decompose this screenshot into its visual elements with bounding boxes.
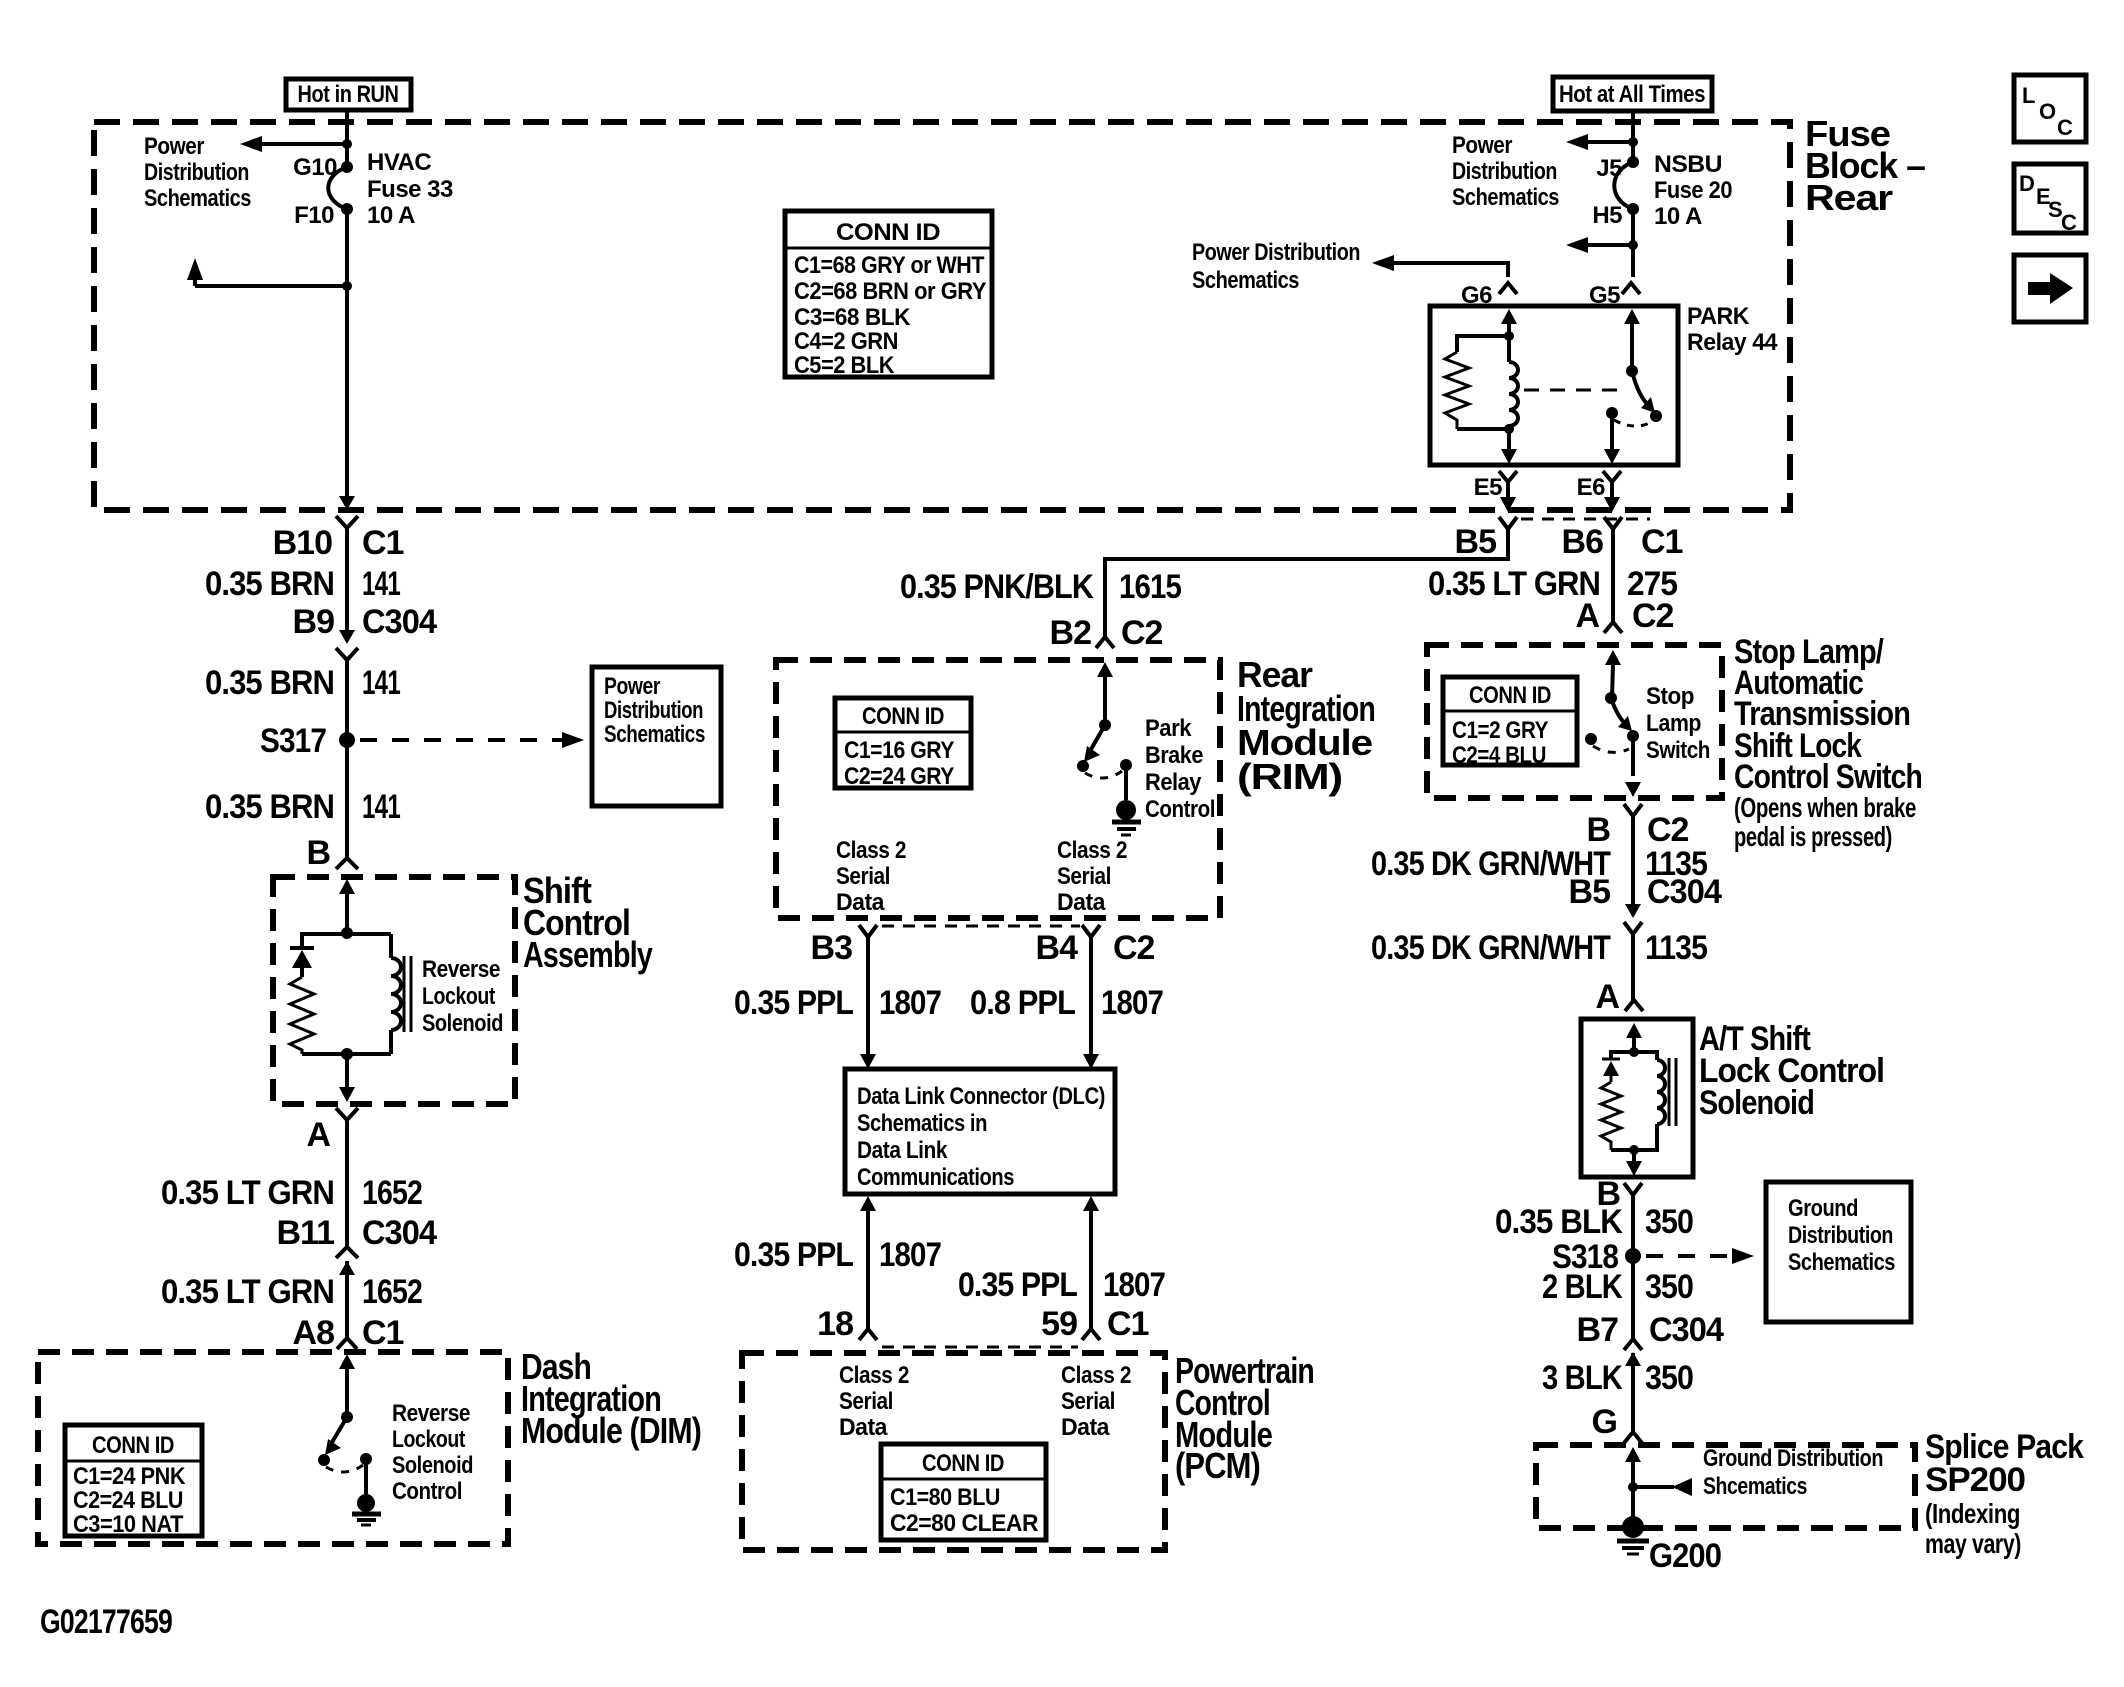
svg-text:Rear: Rear — [1805, 177, 1893, 218]
arrow E6 through fuse block edge — [1604, 497, 1620, 512]
svg-text:A: A — [1575, 597, 1599, 635]
svg-text:Distribution: Distribution — [1452, 158, 1557, 185]
svg-text:O: O — [2039, 99, 2056, 124]
node — [1629, 1047, 1639, 1057]
arrow to power distribution schematics — [1566, 134, 1588, 150]
power source label Hot in RUN — [286, 79, 411, 110]
wire from PCM 18 up to DLC with arrow — [860, 1196, 876, 1211]
svg-text:C3=10 NAT: C3=10 NAT — [73, 1511, 184, 1538]
fuse terminal J5 — [1627, 156, 1639, 168]
wire 1652 LT GRN — [345, 1261, 349, 1339]
svg-text:B2: B2 — [1050, 614, 1092, 652]
relay switch pin arrow (from G5) — [1624, 309, 1640, 324]
node: branch junction — [1628, 137, 1638, 147]
svg-text:0.35 BRN: 0.35 BRN — [205, 565, 334, 603]
label Class 2 Serial Data (RIM right) — [1057, 837, 1127, 916]
connector E6 — [1577, 471, 1621, 501]
svg-text:59: 59 — [1041, 1305, 1077, 1343]
solenoid core bars (A/T) — [1668, 1058, 1671, 1126]
svg-text:C1: C1 — [1107, 1305, 1149, 1343]
svg-text:Lockout: Lockout — [392, 1426, 465, 1453]
note: Power Distribution Schematics (mid) — [1192, 239, 1360, 294]
svg-text:Schematics: Schematics — [1788, 1249, 1895, 1276]
connector table CONN ID (fuse block) — [785, 211, 992, 379]
svg-text:NSBU: NSBU — [1654, 151, 1722, 178]
wire 1652 LT GRN — [345, 1120, 349, 1249]
svg-text:141: 141 — [362, 565, 400, 603]
connector table CONN ID (RIM) — [835, 698, 971, 790]
svg-text:C304: C304 — [362, 1214, 437, 1252]
connector B9 C304 — [293, 603, 438, 660]
svg-text:B: B — [1586, 811, 1610, 849]
connector G5 — [1589, 282, 1640, 309]
svg-text:S317: S317 — [260, 722, 326, 760]
connector B11 C304 (flow up) — [277, 1214, 438, 1275]
svg-text:141: 141 — [362, 788, 400, 826]
svg-text:C4=2 GRN: C4=2 GRN — [794, 328, 898, 355]
svg-text:G02177659: G02177659 — [40, 1603, 172, 1641]
fuse HVAC Fuse 33 10 A — [328, 167, 347, 209]
arrow to ground distribution schematics box — [1732, 1248, 1754, 1264]
svg-text:Reverse: Reverse — [392, 1400, 470, 1427]
arrow out of stop lamp switch box — [1625, 782, 1641, 797]
svg-text:C2=24 GRY: C2=24 GRY — [844, 763, 954, 790]
svg-text:Fuse 20: Fuse 20 — [1654, 177, 1732, 204]
svg-text:C2: C2 — [1121, 614, 1163, 652]
svg-text:1652: 1652 — [362, 1174, 422, 1212]
label Class 2 Serial Data (PCM right) — [1061, 1362, 1131, 1441]
svg-text:B5: B5 — [1455, 523, 1497, 561]
svg-text:0.35 PPL: 0.35 PPL — [734, 1236, 853, 1274]
arrow to power distribution schematics — [1566, 237, 1588, 253]
svg-text:0.35 PNK/BLK: 0.35 PNK/BLK — [900, 568, 1094, 606]
module box: Fuse Block - Rear (dashed) — [94, 122, 1790, 510]
svg-text:C3=68 BLK: C3=68 BLK — [794, 304, 911, 331]
connector table CONN ID (DIM) — [65, 1425, 202, 1538]
dashed connector fragment at PCM top — [882, 1346, 1078, 1349]
connector A below shift control assembly — [306, 1108, 358, 1154]
label Reverse Lockout Solenoid — [422, 956, 503, 1037]
connector table CONN ID (PCM) — [881, 1444, 1046, 1540]
module box: Splice Pack SP200 (dashed) — [1536, 1445, 1915, 1528]
svg-text:Solenoid: Solenoid — [1699, 1084, 1814, 1122]
svg-text:Solenoid: Solenoid — [392, 1452, 473, 1479]
connector B5 C304 — [1569, 873, 1723, 934]
diode (A/T solenoid) — [1602, 1052, 1634, 1082]
ground (DIM internal) — [352, 1494, 381, 1525]
node — [1504, 331, 1514, 341]
connector B5 — [1455, 517, 1517, 561]
svg-text:0.35 LT GRN: 0.35 LT GRN — [1428, 565, 1600, 603]
wire 141 BRN — [345, 660, 349, 859]
wire from relay G6 to reference arrow — [1384, 263, 1508, 277]
svg-text:Class 2: Class 2 — [839, 1362, 909, 1389]
svg-text:C2: C2 — [1647, 811, 1689, 849]
svg-text:0.35 PPL: 0.35 PPL — [958, 1266, 1077, 1304]
svg-text:A: A — [306, 1116, 330, 1154]
svg-text:CONN ID: CONN ID — [862, 703, 944, 730]
module box: Stop Lamp Shift Lock Control Switch (dashed) — [1427, 645, 1722, 798]
wire from PCM 59 up to DLC with arrow — [1083, 1196, 1099, 1211]
svg-text:C1=16 GRY: C1=16 GRY — [844, 737, 954, 764]
wire branch to ground distribution — [1633, 1485, 1674, 1489]
svg-text:0.35 LT GRN: 0.35 LT GRN — [161, 1273, 334, 1311]
svg-text:(Opens when brake: (Opens when brake — [1734, 792, 1916, 823]
node top of solenoid — [341, 927, 353, 939]
svg-text:(Indexing: (Indexing — [1925, 1498, 2020, 1529]
svg-text:C1: C1 — [362, 1314, 404, 1352]
wire to switch pivot — [345, 1368, 349, 1417]
svg-text:B3: B3 — [811, 929, 853, 967]
svg-text:18: 18 — [817, 1305, 853, 1343]
svg-text:(PCM): (PCM) — [1175, 1445, 1260, 1486]
arrow into stop lamp switch box — [1605, 650, 1621, 665]
wire B4 to DLC with arrow — [1089, 937, 1093, 1056]
svg-text:Schematics: Schematics — [1192, 267, 1299, 294]
label Class 2 Serial Data (PCM left) — [839, 1362, 909, 1441]
svg-text:Serial: Serial — [839, 1388, 893, 1415]
connector 59 C1 into PCM — [1041, 1305, 1148, 1343]
svg-text:0.35 BLK: 0.35 BLK — [1495, 1203, 1623, 1241]
svg-text:CONN ID: CONN ID — [92, 1432, 174, 1459]
svg-text:PARK: PARK — [1687, 303, 1750, 330]
fuse terminal F10 — [341, 203, 353, 215]
svg-text:SP200: SP200 — [1925, 1461, 2025, 1499]
node — [1628, 1482, 1638, 1492]
svg-text:Communications: Communications — [857, 1164, 1014, 1191]
svg-text:C304: C304 — [1647, 873, 1722, 911]
module box: Dash Integration Module (dashed) — [38, 1352, 508, 1544]
svg-text:Data: Data — [839, 1414, 888, 1441]
node: branch junction — [342, 139, 352, 149]
wire to splice node — [1631, 1461, 1635, 1518]
svg-text:Schematics: Schematics — [604, 721, 705, 748]
arrow exiting fuse block — [339, 496, 355, 510]
connector B3 below RIM — [811, 925, 877, 967]
svg-text:2 BLK: 2 BLK — [1542, 1268, 1623, 1306]
relay coil pin arrow (from G6) — [1501, 309, 1517, 324]
wire 1135 DK GRN/WHT — [1631, 816, 1635, 904]
wire from Hot in RUN down to fuse — [345, 110, 349, 167]
resistor (solenoid suppression) — [290, 977, 314, 1054]
svg-text:Solenoid: Solenoid — [422, 1010, 503, 1037]
svg-text:Control: Control — [1145, 796, 1215, 823]
power source label Hot at All Times — [1553, 77, 1712, 111]
node: branch junction — [342, 281, 352, 291]
svg-text:Schematics in: Schematics in — [857, 1110, 987, 1137]
svg-text:Data Link: Data Link — [857, 1137, 948, 1164]
note: Ground Distribution Shcematics — [1703, 1445, 1883, 1500]
reference box: Data Link Connector (DLC) — [845, 1069, 1115, 1194]
svg-text:C1: C1 — [1641, 523, 1683, 561]
note: Power Distribution Schematics (top right) — [1452, 132, 1559, 211]
svg-text:Hot in RUN: Hot in RUN — [298, 81, 399, 108]
wire 1135 DK GRN/WHT — [1631, 934, 1635, 1002]
label Stop Lamp Switch — [1646, 683, 1710, 764]
arrow left — [1372, 255, 1394, 271]
wire from Hot at All Times down — [1631, 111, 1635, 162]
svg-text:H5: H5 — [1592, 202, 1622, 229]
legend box arrow — [2014, 255, 2086, 322]
svg-text:CONN ID: CONN ID — [836, 219, 940, 246]
svg-text:Data Link Connector (DLC): Data Link Connector (DLC) — [857, 1083, 1105, 1110]
svg-text:C1=24 PNK: C1=24 PNK — [73, 1463, 186, 1490]
connector E5 — [1474, 471, 1517, 501]
svg-text:Serial: Serial — [1061, 1388, 1115, 1415]
svg-text:E5: E5 — [1474, 474, 1503, 501]
component box: A/T Shift Lock Control Solenoid — [1581, 1019, 1693, 1177]
solenoid coil: Reverse Lockout Solenoid — [347, 934, 401, 1054]
svg-text:B: B — [306, 834, 330, 872]
svg-text:Class 2: Class 2 — [836, 837, 906, 864]
svg-text:Lamp: Lamp — [1646, 710, 1701, 737]
svg-text:Stop: Stop — [1646, 683, 1694, 710]
svg-text:J5: J5 — [1596, 155, 1622, 182]
wire branch left — [1578, 140, 1633, 144]
connector A8 C1 into DIM — [293, 1314, 404, 1352]
svg-text:Distribution: Distribution — [604, 697, 703, 724]
connector B into shift control assembly — [306, 834, 358, 872]
dashed travel arc — [1614, 420, 1652, 426]
wire branch to power distribution — [250, 142, 347, 146]
svg-text:Class 2: Class 2 — [1057, 837, 1127, 864]
wire below fuse — [345, 209, 349, 497]
wire 350 BLK — [1631, 1353, 1635, 1432]
svg-text:C1: C1 — [362, 524, 404, 562]
fuse terminal G10 — [341, 161, 353, 173]
module box: Shift Control Assembly (dashed) — [273, 877, 515, 1104]
arrow into shift control assembly — [339, 879, 355, 894]
svg-text:(RIM): (RIM) — [1237, 756, 1342, 797]
splice S318 — [1625, 1248, 1641, 1264]
legend box LOC — [2014, 75, 2086, 142]
svg-text:3 BLK: 3 BLK — [1542, 1359, 1623, 1397]
svg-text:C2=80 CLEAR: C2=80 CLEAR — [890, 1510, 1038, 1537]
svg-text:B11: B11 — [277, 1214, 335, 1252]
arrow to power distribution schematics — [240, 136, 262, 152]
module title Dash Integration Module (DIM) — [521, 1346, 701, 1451]
svg-text:C1=68 GRY or WHT: C1=68 GRY or WHT — [794, 252, 985, 279]
svg-text:C5=2 BLK: C5=2 BLK — [794, 352, 895, 379]
svg-text:C2=24 BLU: C2=24 BLU — [73, 1487, 183, 1514]
svg-text:350: 350 — [1645, 1268, 1693, 1306]
svg-text:1615: 1615 — [1119, 568, 1181, 606]
svg-text:Distribution: Distribution — [1788, 1222, 1893, 1249]
relay box PARK Relay 44 — [1430, 306, 1678, 465]
relay switch pivot — [1626, 365, 1638, 377]
arrow E5 through fuse block edge — [1500, 497, 1516, 512]
svg-text:E6: E6 — [1577, 474, 1606, 501]
relay switch blade — [1632, 371, 1650, 407]
label Park Brake Relay Control — [1145, 715, 1215, 823]
svg-text:B9: B9 — [293, 603, 335, 641]
svg-text:C304: C304 — [362, 603, 437, 641]
arrow up — [187, 258, 203, 280]
connector G into splice pack — [1592, 1403, 1642, 1443]
svg-text:Relay: Relay — [1145, 769, 1202, 796]
svg-text:Hot at All Times: Hot at All Times — [1559, 81, 1705, 108]
connector A C2 into stop lamp switch — [1575, 597, 1673, 635]
svg-text:Schematics: Schematics — [1452, 184, 1559, 211]
connector table CONN ID (stop lamp switch) — [1443, 677, 1577, 769]
label Reverse Lockout Solenoid Control — [392, 1400, 473, 1505]
dashed reference wire from S317 — [360, 738, 568, 742]
solenoid core bars — [403, 956, 406, 1032]
arrow into RIM — [1097, 662, 1113, 677]
svg-text:Power: Power — [1452, 132, 1512, 159]
reference box: Ground Distribution Schematics — [1766, 1182, 1911, 1322]
svg-text:C2=4 BLU: C2=4 BLU — [1452, 742, 1546, 769]
fuse terminal H5 — [1627, 203, 1639, 215]
svg-text:Data: Data — [1061, 1414, 1110, 1441]
module box: Powertrain Control Module (dashed) — [742, 1353, 1165, 1550]
connector B4 C2 below RIM — [1036, 925, 1155, 967]
node bottom of solenoid — [341, 1048, 353, 1060]
module title Rear Integration Module (RIM) — [1237, 654, 1375, 797]
svg-text:350: 350 — [1645, 1359, 1693, 1397]
svg-text:may vary): may vary) — [1925, 1528, 2021, 1559]
svg-text:Distribution: Distribution — [144, 159, 249, 186]
svg-text:C2: C2 — [1113, 929, 1155, 967]
svg-text:Ground Distribution: Ground Distribution — [1703, 1445, 1883, 1472]
wire B6 down to stop lamp switch — [1611, 529, 1615, 621]
relay contact — [1606, 407, 1618, 419]
connector B7 C304 (flow up) — [1577, 1311, 1725, 1366]
svg-text:Power: Power — [604, 673, 660, 700]
label Class 2 Serial Data (RIM left) — [836, 837, 906, 916]
wire down and arrow out of box — [345, 1054, 349, 1088]
module label A/T Shift Lock Control Solenoid — [1699, 1020, 1884, 1122]
svg-text:Data: Data — [836, 889, 885, 916]
dashed connector fragment below RIM — [882, 925, 1080, 928]
svg-text:Shcematics: Shcematics — [1703, 1473, 1807, 1500]
svg-text:B10: B10 — [273, 524, 332, 562]
solenoid coil (A/T) — [1634, 1052, 1665, 1150]
svg-text:C2=68 BRN or GRY: C2=68 BRN or GRY — [794, 278, 986, 305]
legend box DESC — [2014, 164, 2086, 235]
svg-text:CONN ID: CONN ID — [922, 1450, 1004, 1477]
svg-text:Power Distribution: Power Distribution — [1192, 239, 1360, 266]
connector B6 C1 — [1562, 517, 1683, 561]
connector B below solenoid — [1596, 1175, 1642, 1213]
wire from B5 down-left to RIM B2 — [1105, 529, 1508, 628]
wire to E5 with arrow — [1507, 429, 1511, 451]
svg-text:C304: C304 — [1649, 1311, 1724, 1349]
svg-text:1807: 1807 — [879, 1236, 941, 1274]
svg-text:350: 350 — [1645, 1203, 1693, 1241]
splice S317 — [339, 732, 355, 748]
module title Stop Lamp / A/T Shift Lock Control Switch — [1734, 633, 1922, 852]
svg-text:CONN ID: CONN ID — [1469, 682, 1551, 709]
switch: reverse lockout solenoid control — [318, 1411, 372, 1494]
svg-text:1807: 1807 — [1101, 984, 1163, 1022]
node: branch junction — [1628, 240, 1638, 250]
svg-text:L: L — [2022, 83, 2035, 108]
relay suppression resistor — [1445, 336, 1509, 429]
svg-text:A8: A8 — [293, 1314, 335, 1352]
connector G6 — [1461, 282, 1517, 309]
fuse NSBU Fuse 20 10 A — [1614, 162, 1633, 209]
ground G200 — [1617, 1516, 1721, 1575]
svg-text:Fuse 33: Fuse 33 — [367, 176, 453, 203]
svg-text:C: C — [2057, 115, 2073, 140]
module title Powertrain Control Module (PCM) — [1175, 1350, 1314, 1486]
arrow into solenoid box — [1626, 1023, 1642, 1038]
svg-text:Switch: Switch — [1646, 737, 1710, 764]
wire branch left — [1578, 243, 1633, 247]
svg-text:1807: 1807 — [879, 984, 941, 1022]
node — [1504, 424, 1514, 434]
svg-text:0.35 BRN: 0.35 BRN — [205, 664, 334, 702]
svg-text:10 A: 10 A — [1654, 203, 1702, 230]
svg-text:0.8 PPL: 0.8 PPL — [970, 984, 1075, 1022]
module box: Rear Integration Module (dashed) — [776, 660, 1220, 918]
note: Power Distribution Schematics (top left) — [144, 133, 251, 212]
svg-text:F10: F10 — [294, 202, 334, 229]
svg-text:Control: Control — [392, 1478, 462, 1505]
dashed reference wire from S318 — [1646, 1254, 1738, 1258]
relay actuation dashed link — [1524, 389, 1622, 392]
svg-text:Serial: Serial — [836, 863, 890, 890]
svg-text:B6: B6 — [1562, 523, 1604, 561]
arrow into splice pack — [1625, 1447, 1641, 1462]
svg-text:0.35 PPL: 0.35 PPL — [734, 984, 853, 1022]
wire top bar — [302, 934, 391, 947]
wire branch with up arrow — [195, 284, 347, 288]
svg-text:B5: B5 — [1569, 873, 1611, 911]
switch: park brake relay control — [1077, 676, 1132, 800]
svg-text:G: G — [1592, 1403, 1617, 1441]
arrow to power distribution schematics box — [562, 732, 584, 748]
svg-text:G200: G200 — [1649, 1537, 1721, 1575]
svg-text:0.35 DK GRN/WHT: 0.35 DK GRN/WHT — [1371, 929, 1611, 967]
dashed connector fragment below fuse block — [1521, 518, 1650, 521]
wire and arrow out of solenoid box — [1632, 1150, 1636, 1162]
switch: stop lamp switch — [1585, 664, 1639, 776]
module title Shift Control Assembly — [523, 870, 653, 975]
arrow into DIM — [339, 1354, 355, 1369]
svg-text:HVAC: HVAC — [367, 149, 431, 176]
relay coil — [1509, 336, 1518, 429]
svg-text:Ground: Ground — [1788, 1195, 1858, 1222]
wire 141 BRN — [345, 528, 349, 630]
wire bottom bar — [302, 1052, 347, 1056]
svg-text:Relay 44: Relay 44 — [1687, 329, 1778, 356]
svg-text:141: 141 — [362, 664, 400, 702]
wire below fuse — [1631, 209, 1635, 277]
connector 18 into PCM — [817, 1305, 877, 1343]
connector B10 C1 — [273, 516, 404, 562]
resistor (A/T solenoid) — [1601, 1082, 1621, 1150]
node — [1629, 1145, 1639, 1155]
module title Splice Pack SP200 — [1925, 1428, 2084, 1559]
svg-text:Power: Power — [144, 133, 204, 160]
svg-text:Serial: Serial — [1057, 863, 1111, 890]
svg-text:Schematics: Schematics — [144, 185, 251, 212]
module title Fuse Block - Rear — [1805, 113, 1925, 218]
wire contact to E6 with arrow — [1610, 417, 1614, 451]
svg-text:pedal is pressed): pedal is pressed) — [1734, 821, 1892, 852]
svg-text:Control Switch: Control Switch — [1734, 758, 1922, 796]
svg-text:10 A: 10 A — [367, 202, 415, 229]
svg-text:D: D — [2019, 171, 2035, 196]
svg-text:C1=80 BLU: C1=80 BLU — [890, 1484, 1000, 1511]
svg-text:C: C — [2061, 210, 2077, 235]
connector A into A/T solenoid — [1595, 978, 1643, 1016]
svg-text:A: A — [1595, 978, 1619, 1016]
svg-text:1135: 1135 — [1645, 929, 1707, 967]
svg-text:C1=2 GRY: C1=2 GRY — [1452, 717, 1548, 744]
